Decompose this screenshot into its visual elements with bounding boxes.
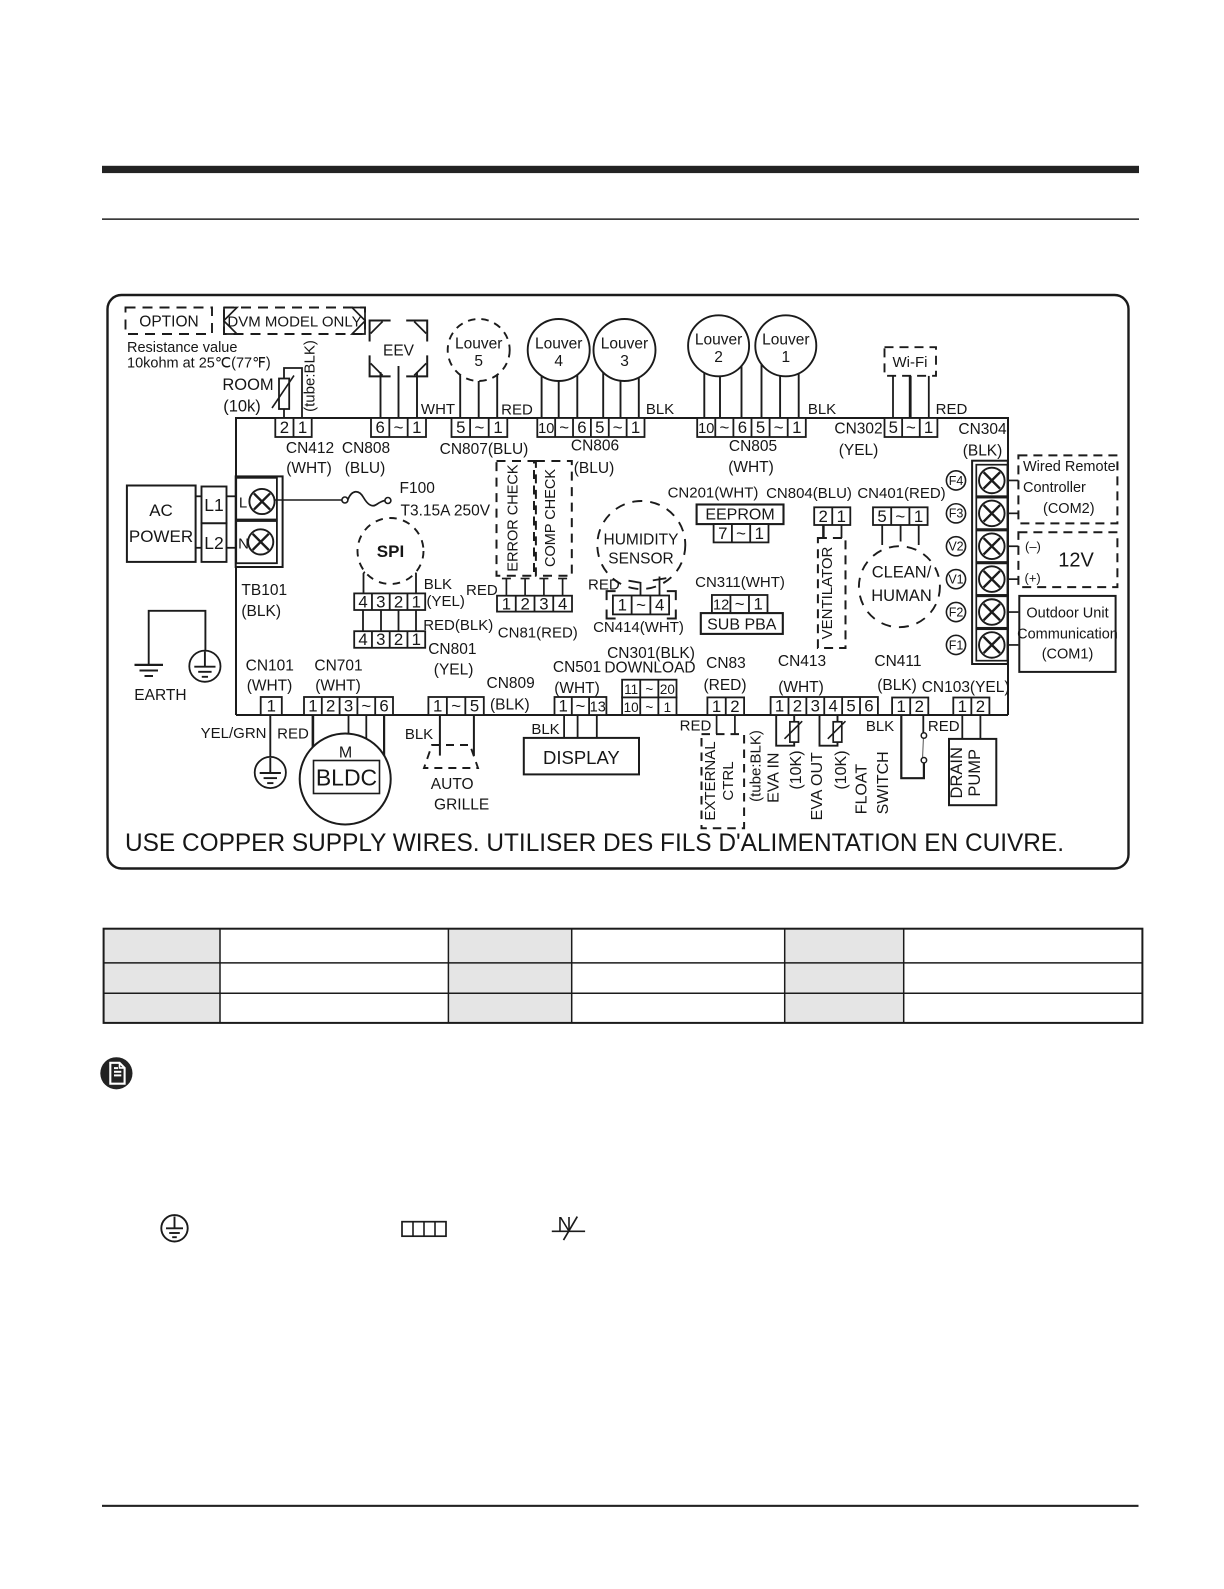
svg-text:(YEL): (YEL): [839, 442, 879, 459]
wire SPI harness links: [363, 610, 416, 631]
svg-text:(YEL): (YEL): [427, 593, 465, 610]
node wire label RED: [501, 402, 533, 419]
node label CN83 (RED): [703, 655, 746, 694]
svg-text:3: 3: [539, 594, 548, 613]
svg-text:F100: F100: [400, 480, 436, 497]
svg-text:V1: V1: [948, 573, 963, 587]
svg-text:BLK: BLK: [808, 401, 836, 418]
svg-text:Louver: Louver: [455, 336, 502, 353]
node label CN412 (WHT): [286, 440, 334, 477]
svg-text:(BLK): (BLK): [490, 697, 530, 714]
wire CN103 to DRAIN PUMP: [962, 715, 980, 739]
svg-text:5: 5: [456, 418, 465, 437]
svg-text:F3: F3: [949, 507, 964, 521]
node legend table: [104, 929, 1143, 1023]
node wire label BLK: [646, 401, 674, 418]
svg-text:COMP CHECK: COMP CHECK: [543, 469, 559, 567]
svg-text:EXTERNAL: EXTERNAL: [702, 741, 719, 820]
wire CN501 to DISPLAY: [564, 715, 597, 738]
svg-text:CN101: CN101: [246, 658, 294, 675]
wire footer rule: [102, 1505, 1139, 1507]
svg-text:(10K): (10K): [788, 750, 805, 789]
svg-text:CN201(WHT): CN201(WHT): [668, 485, 759, 502]
svg-text:TB101: TB101: [241, 582, 287, 599]
module AUTO GRILLE: [424, 745, 489, 814]
svg-text:BLK: BLK: [424, 576, 452, 593]
resistor EVA OUT thermistor (10K): [828, 721, 846, 742]
wire main board bottom bus: [236, 714, 1008, 716]
svg-text:(YEL): (YEL): [434, 662, 474, 679]
connector CN401: [873, 507, 928, 526]
node label 10K EVA IN: [788, 750, 805, 789]
ground circled earth CN101: [255, 757, 286, 788]
svg-text:4: 4: [358, 630, 367, 649]
svg-text:CLEAN/: CLEAN/: [872, 564, 932, 582]
motor Louver 3: [594, 319, 656, 381]
svg-text:10kohm at 25℃(77℉): 10kohm at 25℃(77℉): [127, 356, 271, 372]
svg-text:V2: V2: [948, 540, 963, 554]
wire CN401 to CLEAN/HUMAN: [882, 525, 919, 545]
svg-text:M: M: [339, 745, 352, 762]
svg-text:(–): (–): [1025, 539, 1041, 554]
svg-text:YEL/GRN: YEL/GRN: [201, 725, 267, 742]
svg-text:5: 5: [877, 507, 886, 526]
module VENTILATOR: [818, 538, 846, 648]
svg-text:(COM2): (COM2): [1043, 501, 1095, 517]
connector CN304 terminal block F4-F1: [972, 461, 1008, 664]
node label CN311(WHT): [695, 574, 785, 591]
svg-text:(tube:BLK): (tube:BLK): [302, 340, 319, 412]
svg-text:PUMP: PUMP: [966, 749, 984, 797]
connector CN301 row 10-1: [622, 697, 676, 715]
connector CN201: [714, 524, 769, 543]
wire CN413 pins 1-2 EVA IN loop: [776, 715, 794, 746]
board SUB PBA: [701, 613, 783, 634]
svg-text:(RED): (RED): [703, 677, 746, 694]
svg-text:12V: 12V: [1058, 550, 1094, 572]
svg-text:4: 4: [655, 596, 664, 615]
svg-text:10: 10: [624, 700, 639, 715]
svg-text:RED: RED: [466, 582, 498, 599]
motor DRAIN PUMP: [948, 739, 997, 805]
node 12V supply box: [1018, 532, 1117, 587]
node resistance note: [127, 340, 271, 372]
svg-text:1: 1: [412, 418, 421, 437]
svg-text:Louver: Louver: [601, 336, 648, 353]
wire CN83 to EXTERNAL CTRL: [717, 715, 735, 734]
svg-text:10: 10: [698, 421, 714, 437]
svg-text:DVM MODEL ONLY: DVM MODEL ONLY: [227, 314, 361, 331]
node copper wires warning text: [125, 829, 1064, 857]
svg-text:USE COPPER SUPPLY WIRES. UTILI: USE COPPER SUPPLY WIRES. UTILISER DES FI…: [125, 829, 1064, 857]
connector terminal strip symbol: [402, 1222, 446, 1237]
wire CN701 to BLDC motor: [313, 715, 384, 756]
svg-text:WHT: WHT: [421, 401, 455, 418]
svg-text:1: 1: [493, 418, 502, 437]
connector CN411: [892, 697, 928, 716]
svg-text:1: 1: [781, 349, 790, 366]
motor Louver 2: [688, 315, 749, 376]
svg-text:~: ~: [613, 418, 623, 437]
connector CN801: [354, 630, 425, 649]
svg-text:~: ~: [735, 595, 745, 614]
svg-text:(COM1): (COM1): [1042, 647, 1094, 663]
svg-text:BLK: BLK: [531, 721, 559, 738]
svg-text:CN801: CN801: [428, 641, 476, 658]
svg-text:CN401(RED): CN401(RED): [857, 485, 945, 502]
svg-text:CN806: CN806: [571, 438, 619, 455]
node label F100 value: [400, 480, 491, 520]
svg-text:~: ~: [636, 596, 646, 615]
svg-text:(WHT): (WHT): [554, 680, 600, 697]
node wire label BLK CN501: [531, 721, 559, 738]
svg-text:1: 1: [433, 697, 442, 716]
node label EVA OUT: [809, 752, 826, 820]
connector CN311: [712, 595, 768, 614]
svg-text:1: 1: [755, 524, 764, 543]
wire main board left edge: [235, 417, 237, 715]
svg-text:SENSOR: SENSOR: [608, 551, 673, 568]
module EXTERNAL CTRL: [702, 734, 745, 828]
svg-text:FLOAT: FLOAT: [854, 764, 871, 815]
connector CN414: [613, 596, 669, 615]
connector CN806: [537, 418, 644, 437]
svg-text:4: 4: [829, 697, 838, 716]
svg-text:2: 2: [976, 697, 985, 716]
svg-text:DISPLAY: DISPLAY: [543, 747, 620, 768]
node label CN81(RED): [498, 625, 578, 642]
svg-text:~: ~: [576, 697, 586, 716]
ground circled earth: [189, 651, 220, 682]
diagram border frame: [108, 295, 1129, 869]
node label CN304 (BLK): [958, 421, 1007, 460]
node CN414 dashed bracket: [607, 591, 676, 618]
svg-text:(+): (+): [1025, 571, 1041, 586]
node label CN411 (BLK): [874, 653, 921, 694]
svg-text:4: 4: [558, 594, 567, 613]
svg-text:BLK: BLK: [866, 718, 894, 735]
node label 10K EVA OUT: [833, 750, 850, 789]
svg-text:AC: AC: [149, 501, 173, 520]
svg-text:(10K): (10K): [833, 750, 850, 789]
svg-text:CN809: CN809: [487, 675, 535, 692]
svg-text:3: 3: [811, 697, 820, 716]
wire HUMIDITY SENSOR to CN414: [629, 577, 667, 596]
svg-text:F4: F4: [949, 474, 964, 488]
svg-text:~: ~: [645, 700, 653, 715]
svg-text:3: 3: [376, 630, 385, 649]
svg-text:L2: L2: [204, 533, 223, 553]
svg-text:~: ~: [474, 418, 484, 437]
node label CN103(YEL): [922, 679, 1010, 696]
svg-text:1: 1: [754, 595, 763, 614]
svg-text:T3.15A 250V: T3.15A 250V: [401, 503, 491, 520]
node wire label RED 2: [936, 401, 968, 418]
node DVM MODEL ONLY legend box: [224, 308, 365, 335]
wire ROOM thermistor to CN412: [284, 368, 302, 419]
connector CN804: [814, 507, 850, 526]
svg-text:~: ~: [559, 418, 569, 437]
switch float switch CN411: [901, 715, 926, 778]
svg-text:RED: RED: [501, 402, 533, 419]
node wire label BLK CN809: [405, 726, 433, 743]
node label CN401(RED): [857, 485, 945, 502]
connector CN101: [261, 697, 282, 716]
svg-text:1: 1: [631, 418, 640, 437]
svg-text:DRAIN: DRAIN: [948, 747, 966, 798]
svg-text:2: 2: [326, 697, 335, 716]
module Wi-Fi: [885, 347, 937, 376]
svg-text:~: ~: [774, 418, 784, 437]
svg-text:13: 13: [590, 700, 606, 716]
node ROOM sensor label: [222, 376, 273, 416]
svg-text:VENTILATOR: VENTILATOR: [819, 546, 836, 639]
svg-text:Outdoor Unit: Outdoor Unit: [1026, 606, 1108, 622]
svg-text:(tube:BLK): (tube:BLK): [748, 730, 765, 802]
module COMP CHECK: [536, 461, 572, 576]
svg-text:1: 1: [502, 594, 511, 613]
svg-text:(10k): (10k): [223, 398, 261, 416]
svg-text:F2: F2: [949, 605, 964, 619]
svg-text:(WHT): (WHT): [778, 679, 824, 696]
module ERROR CHECK: [497, 461, 535, 576]
svg-text:CN83: CN83: [706, 655, 746, 672]
svg-text:GRILLE: GRILLE: [434, 797, 489, 814]
svg-text:1: 1: [267, 697, 276, 716]
svg-text:BLK: BLK: [646, 401, 674, 418]
svg-text:11: 11: [624, 682, 638, 697]
svg-text:(WHT): (WHT): [286, 460, 332, 477]
node label CN501 (WHT): [553, 659, 601, 697]
svg-text:2: 2: [520, 594, 529, 613]
svg-text:CN414(WHT): CN414(WHT): [593, 619, 684, 636]
svg-text:7: 7: [718, 524, 727, 543]
svg-text:ROOM: ROOM: [222, 376, 273, 394]
wire Wi-Fi to CN302: [893, 376, 929, 418]
svg-text:CN701: CN701: [314, 658, 362, 675]
wire header thin rule: [102, 218, 1139, 220]
wire Louver 3 to connector: [603, 350, 639, 418]
svg-text:6: 6: [379, 697, 388, 716]
wire earth link: [149, 611, 206, 665]
svg-text:Resistance value: Resistance value: [127, 340, 237, 356]
svg-text:N: N: [238, 536, 249, 553]
svg-text:3: 3: [376, 592, 385, 611]
svg-text:6: 6: [375, 418, 384, 437]
module DISPLAY: [524, 738, 639, 775]
connector CN81: [497, 594, 572, 613]
node labels BLK (YEL) RED(BLK) CN801 (YEL): [423, 576, 493, 679]
svg-text:CN103(YEL): CN103(YEL): [922, 679, 1010, 696]
svg-text:1: 1: [664, 700, 672, 715]
node label CN806 (BLU): [571, 438, 619, 478]
node label FLOAT SWITCH: [854, 751, 893, 814]
svg-text:EEV: EEV: [383, 343, 415, 360]
node label CN413 (WHT): [778, 653, 826, 696]
resistor EVA IN thermistor (10K): [785, 721, 803, 742]
svg-text:Louver: Louver: [762, 331, 809, 348]
connector SPI harness upper: [354, 592, 425, 611]
wire top thick rule: [102, 166, 1139, 173]
svg-text:BLK: BLK: [405, 726, 433, 743]
wire Louver 5 to connector: [460, 350, 497, 418]
svg-text:(BLK): (BLK): [241, 603, 281, 620]
svg-text:(WHT): (WHT): [315, 678, 361, 695]
svg-text:CN302: CN302: [834, 421, 882, 438]
node label CN805 (WHT): [728, 438, 777, 476]
node note icon: [100, 1057, 132, 1089]
svg-text:RED: RED: [277, 726, 309, 743]
motor Louver 4: [528, 319, 590, 381]
svg-text:~: ~: [394, 418, 404, 437]
svg-text:RED: RED: [680, 718, 712, 735]
node label CN701 (WHT): [314, 658, 362, 695]
node terminal L2: [202, 523, 227, 562]
connector CN701: [304, 697, 393, 716]
svg-text:6: 6: [577, 418, 586, 437]
node label CN302 (YEL): [834, 421, 882, 460]
svg-text:1: 1: [792, 418, 801, 437]
svg-text:5: 5: [474, 353, 483, 370]
svg-text:Louver: Louver: [535, 336, 582, 353]
wire L to fuse F100: [275, 499, 342, 501]
node label CN201(WHT): [668, 485, 759, 502]
motor Louver 5: [448, 319, 510, 381]
svg-text:(BLK): (BLK): [963, 443, 1003, 460]
wire check boxes to CN81: [502, 579, 567, 596]
wire Louver 4 to connector: [542, 350, 578, 418]
connector TB101 terminal block: [236, 476, 283, 567]
svg-text:CN413: CN413: [778, 653, 826, 670]
svg-text:HUMAN: HUMAN: [871, 587, 932, 605]
svg-text:EARTH: EARTH: [134, 687, 186, 704]
wire terminal stubs to COM boxes: [1008, 480, 1019, 645]
wire CN804 to VENTILATOR: [823, 525, 841, 538]
svg-text:EVA OUT: EVA OUT: [809, 752, 826, 820]
node neutral N symbol: [552, 1214, 585, 1240]
svg-text:~: ~: [906, 418, 916, 437]
connector CN809: [428, 697, 483, 716]
svg-text:1: 1: [412, 592, 421, 611]
svg-text:ERROR CHECK: ERROR CHECK: [505, 464, 521, 571]
connector CN501: [555, 697, 607, 716]
svg-text:6: 6: [738, 418, 747, 437]
ground protective earth symbol: [161, 1215, 187, 1241]
svg-text:RED(BLK): RED(BLK): [423, 617, 493, 634]
wire CN809 to AUTO GRILLE: [440, 715, 474, 756]
svg-text:3: 3: [344, 697, 353, 716]
svg-text:AUTO: AUTO: [431, 776, 474, 793]
node wire label RED CN414: [588, 577, 620, 594]
node label tube:BLK CN413: [748, 730, 765, 802]
motor BLDC fan: [300, 734, 391, 825]
wire EEV to CN808: [381, 366, 418, 418]
svg-text:OPTION: OPTION: [139, 314, 198, 331]
svg-text:SWITCH: SWITCH: [875, 751, 892, 814]
svg-text:CN808: CN808: [342, 440, 390, 457]
wire SPI to connector: [364, 567, 417, 594]
sensor CLEAN/HUMAN: [859, 546, 940, 627]
svg-text:20: 20: [660, 682, 675, 697]
svg-text:DOWNLOAD: DOWNLOAD: [604, 660, 695, 677]
node wire label BLK 2: [808, 401, 836, 418]
svg-text:Communication: Communication: [1017, 627, 1118, 643]
module SPI: [358, 518, 424, 584]
node label CN414(WHT): [593, 619, 684, 636]
node label CN807 (BLU): [440, 441, 529, 458]
svg-text:2: 2: [394, 630, 403, 649]
svg-text:2: 2: [280, 418, 289, 437]
svg-text:1: 1: [558, 697, 567, 716]
svg-text:2: 2: [394, 592, 403, 611]
svg-text:1: 1: [914, 507, 923, 526]
svg-text:EEPROM: EEPROM: [705, 507, 774, 524]
svg-text:2: 2: [819, 507, 828, 526]
svg-text:L1: L1: [204, 495, 223, 515]
node label CN804(BLU): [766, 485, 852, 502]
wire AC POWER stubs: [196, 496, 237, 548]
wire main board right edge: [1007, 417, 1009, 715]
svg-text:Wi-Fi: Wi-Fi: [893, 354, 928, 371]
svg-text:~: ~: [736, 524, 746, 543]
svg-text:CN412: CN412: [286, 440, 334, 457]
svg-text:CN807(BLU): CN807(BLU): [440, 441, 529, 458]
svg-text:(WHT): (WHT): [247, 678, 293, 695]
svg-text:(BLU): (BLU): [574, 460, 614, 477]
connector CN412: [275, 418, 311, 437]
node terminal labels F4 F3 V2 V1 F2 F1: [946, 471, 965, 655]
svg-text:2: 2: [793, 697, 802, 716]
node Wired Remote Controller (COM2): [1018, 455, 1117, 523]
wire Louver 1 to connector: [762, 346, 799, 418]
svg-text:RED: RED: [928, 718, 960, 735]
wire CN413 pins 3-4 EVA OUT loop: [820, 715, 838, 746]
svg-text:~: ~: [645, 682, 653, 697]
svg-text:10: 10: [538, 421, 554, 437]
svg-text:CN805: CN805: [729, 438, 777, 455]
node label EVA IN: [766, 753, 783, 803]
node wire label RED CN103: [928, 718, 960, 735]
svg-text:F1: F1: [949, 638, 964, 652]
node Outdoor Unit Communication (COM1): [1017, 596, 1118, 672]
svg-text:Louver: Louver: [695, 331, 742, 348]
wire CN101 earth lead YEL/GRN: [269, 715, 271, 757]
node wire label YEL/GRN: [201, 725, 267, 742]
valve EEV: [370, 321, 428, 377]
svg-text:CN304: CN304: [958, 421, 1007, 438]
chip EEPROM: [697, 505, 784, 525]
node tube:BLK label CN412: [302, 340, 319, 412]
svg-text:EVA IN: EVA IN: [766, 753, 783, 803]
svg-text:SPI: SPI: [377, 542, 404, 561]
motor Louver 1: [755, 315, 816, 376]
svg-text:(BLU): (BLU): [345, 460, 385, 477]
svg-text:~: ~: [895, 507, 905, 526]
svg-text:4: 4: [358, 592, 367, 611]
node label CN809 (BLK): [487, 675, 535, 714]
svg-text:6: 6: [864, 697, 873, 716]
svg-text:1: 1: [958, 697, 967, 716]
svg-text:5: 5: [846, 697, 855, 716]
svg-text:1: 1: [775, 697, 784, 716]
resistor ROOM thermistor (10k): [272, 376, 294, 410]
node OPTION legend box: [126, 308, 213, 335]
svg-text:BLDC: BLDC: [316, 765, 377, 791]
svg-text:1: 1: [412, 630, 421, 649]
node wire label RED CN701: [277, 726, 309, 743]
svg-text:CN804(BLU): CN804(BLU): [766, 485, 852, 502]
connector CN413: [771, 697, 878, 716]
